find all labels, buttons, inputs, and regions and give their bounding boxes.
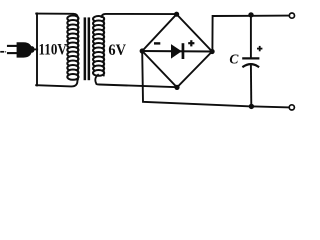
capacitor C1 plates [243, 57, 258, 59]
AC plug P1 [1, 42, 37, 57]
svg-text:110V: 110V [39, 42, 68, 59]
transformer T1 primary winding [67, 16, 78, 80]
svg-text:C: C [229, 52, 239, 67]
wire secondary winding right edge [103, 18, 105, 76]
node bridge left [140, 48, 145, 53]
bridge rectifier diamond [142, 14, 212, 87]
transformer T1 core [84, 17, 91, 80]
node bridge top [174, 12, 179, 17]
wire secondary bottom to bridge (crossover) [95, 75, 177, 87]
transformer T1 secondary winding [93, 16, 104, 76]
capacitor C1 bottom lead [250, 65, 252, 107]
node bridge right [210, 49, 215, 54]
label minus [154, 42, 160, 44]
terminal output positive [289, 13, 294, 18]
wire negative rail [142, 51, 289, 107]
diode D1 [171, 43, 184, 59]
node bridge bottom [174, 85, 179, 90]
wire primary loop left/top/bottom [36, 13, 38, 85]
svg-text:6V: 6V [108, 42, 126, 59]
wire secondary top to bridge [102, 14, 177, 17]
wire bridge horizontal [142, 50, 212, 53]
capacitor C1 top lead [250, 15, 252, 57]
node top rail junction [248, 12, 253, 17]
label plus capacitor [257, 46, 262, 51]
wire primary winding right edge [77, 18, 79, 80]
label plus [188, 40, 194, 46]
node bottom rail junction [249, 104, 254, 109]
wire positive rail [212, 16, 289, 52]
terminal output negative [289, 105, 294, 110]
